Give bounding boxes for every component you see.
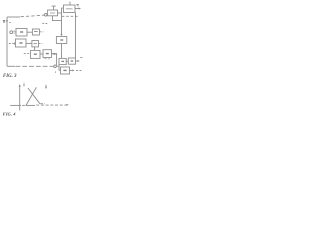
value dot inside 22 <box>60 39 63 41</box>
arrowhead x-axis <box>66 104 68 106</box>
pin tick above block 16 <box>52 6 56 10</box>
svg-text:FIG. 4: FIG. 4 <box>3 112 17 117</box>
block 18b row1 right <box>32 29 39 35</box>
value dot inside 40 <box>63 69 66 71</box>
value dot inside 24a <box>19 42 22 44</box>
wire output 36 arrow <box>76 60 79 62</box>
pin tick above block 30 <box>69 2 71 5</box>
curve A rising <box>26 87 36 105</box>
wire block16 bottom L <box>53 16 62 21</box>
label 20 under node <box>42 22 47 24</box>
wire 26b output down corner <box>52 54 57 66</box>
wire block22 bottom drop to block 34 <box>61 44 63 59</box>
wire right vertical bus <box>75 13 77 59</box>
block 26b row3 right <box>43 50 52 58</box>
value mark inside 18b <box>34 31 38 33</box>
arrowhead into block 26b right <box>52 53 55 55</box>
label tick curve B top <box>45 85 47 88</box>
graph x-axis under curves <box>26 104 36 106</box>
wire output arrow of block 30 <box>75 8 80 10</box>
node 20 junction circle <box>44 14 47 17</box>
wire output 18b dashes <box>39 31 43 33</box>
wire 18a to 18b <box>27 31 32 33</box>
value mark inside block 30 <box>66 8 73 10</box>
svg-text:FIG. 3: FIG. 3 <box>3 74 17 79</box>
value mark inside 24b <box>34 43 37 45</box>
arrowhead up on left bus <box>6 19 8 22</box>
wire long dash-dot bottom bus <box>16 65 54 67</box>
graph x-axis dash-dot right <box>36 104 67 106</box>
block 30 (top right) <box>64 5 76 13</box>
wire threshold dash from curve B <box>40 103 45 105</box>
graph x-axis dash <box>22 104 25 106</box>
wire dashed under block 30 <box>62 15 78 17</box>
block 24a row2 left <box>16 39 27 47</box>
arrowhead y-axis <box>19 84 21 87</box>
wire bus to vertical <box>56 65 59 67</box>
label 32 <box>76 4 79 5</box>
tick at row2 input <box>14 42 16 44</box>
label dashes under 26b <box>44 58 50 60</box>
block 36 lower right row right <box>68 58 75 64</box>
wire 34 to 36 <box>66 60 68 62</box>
arrowhead into block 22 <box>60 34 62 36</box>
arrowhead tick B <box>45 87 47 89</box>
graph x-axis solid <box>10 104 21 106</box>
curve B falling <box>28 88 40 104</box>
block 26a row3 left <box>31 50 41 58</box>
value dot inside 36 <box>71 60 74 62</box>
wire output 24b dashes <box>39 42 43 44</box>
graph y-axis <box>19 86 21 110</box>
value mark inside block 16 <box>50 12 55 14</box>
node label 12 <box>3 21 5 22</box>
label 38 <box>80 57 82 59</box>
block 18a row1 left <box>16 29 27 37</box>
wire input top-left horizontal <box>7 16 20 18</box>
wire left vertical bus <box>6 17 8 66</box>
wire tick right of arrow <box>9 22 12 24</box>
bus junction circle <box>54 65 57 68</box>
arrowhead output 36 <box>78 60 80 62</box>
arrowhead output 30 <box>79 7 81 9</box>
wire center vertical drop to block 22 <box>61 8 63 35</box>
block 22 (middle right) <box>56 37 66 44</box>
summing node row1 <box>10 31 13 34</box>
value dot inside 26a <box>34 53 37 55</box>
block 16 (top center) <box>48 10 58 16</box>
value dot inside 18a <box>20 31 23 33</box>
wire vertical feed into block 40 <box>59 65 60 70</box>
wire output 40 arrow <box>70 69 74 71</box>
label tick under bus circle <box>54 71 56 73</box>
wire node marks row1 <box>13 31 15 33</box>
wire dash to row2 <box>9 42 14 44</box>
wire 26a to 26b <box>40 53 43 55</box>
wire 24b bottom down to 26a <box>34 47 36 51</box>
wire dash input 26a <box>24 53 30 55</box>
wire dash-dot input line toward node 20 <box>21 15 45 17</box>
wire 24a to 24b <box>26 42 32 44</box>
wire block16 right to vertical drop <box>58 12 62 14</box>
wire dash after 40 <box>76 69 82 71</box>
arrowhead output 40 <box>72 69 74 71</box>
wire stub arrow 26b <box>54 53 56 55</box>
value dot inside 34 <box>61 60 64 62</box>
label tick near y-axis top <box>23 82 25 86</box>
wire stub to block 30 left <box>62 7 64 9</box>
wire node to block 16 <box>46 14 49 16</box>
value dot inside 26b <box>46 53 49 55</box>
block 24b row2 right <box>32 41 39 47</box>
block 34 lower right row left <box>59 58 66 64</box>
block 40 bottom <box>61 67 70 74</box>
wire bottom bus solid start <box>7 65 15 67</box>
